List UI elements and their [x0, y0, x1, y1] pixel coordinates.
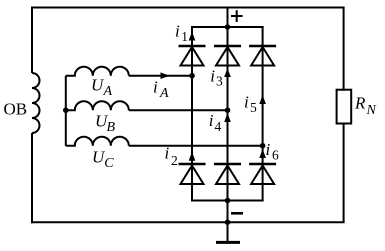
- svg-text:C: C: [104, 156, 114, 171]
- inductor UA winding: [66, 67, 129, 76]
- inductor UC winding: [66, 137, 129, 146]
- wire phase A line: [129, 75, 192, 77]
- wire phase C line: [129, 145, 263, 147]
- wire minus bus: [191, 200, 264, 202]
- wire left side upper: [31, 7, 33, 74]
- diode V2: [179, 164, 206, 184]
- arrow iA: [161, 72, 170, 79]
- svg-text:N: N: [366, 103, 377, 118]
- arrow i4: [224, 113, 231, 122]
- svg-text:A: A: [103, 84, 113, 99]
- inductor OB winding: [32, 73, 40, 133]
- svg-text:5: 5: [250, 100, 257, 115]
- wire right side lower: [343, 124, 345, 223]
- svg-text:3: 3: [216, 74, 223, 89]
- wire left side lower: [31, 133, 33, 223]
- node bottom-line junction: [225, 219, 231, 225]
- svg-text:6: 6: [272, 148, 279, 163]
- node plus-bus junction: [225, 24, 231, 30]
- svg-text:i: i: [153, 78, 158, 97]
- wire wye neutral vertical: [65, 76, 67, 146]
- diode V1: [179, 46, 206, 66]
- svg-text:R: R: [354, 94, 366, 113]
- inductor UB winding: [66, 101, 129, 110]
- svg-text:A: A: [159, 86, 169, 101]
- arrow i3: [224, 68, 231, 77]
- diode V4: [214, 164, 241, 184]
- wire left bridge column: [191, 26, 193, 202]
- svg-text:i: i: [244, 93, 249, 112]
- arrow i2: [189, 152, 196, 161]
- svg-text:i: i: [266, 140, 271, 159]
- arrow i5: [259, 95, 266, 104]
- wire plus bus: [191, 26, 264, 28]
- wire right bridge column: [262, 26, 264, 202]
- node phase C junction: [260, 143, 266, 149]
- svg-text:1: 1: [181, 29, 188, 44]
- diode V5: [249, 46, 276, 66]
- svg-text:2: 2: [171, 153, 178, 168]
- wire top line: [31, 7, 345, 9]
- plus sign: [231, 10, 243, 22]
- resistor RN: [337, 90, 352, 124]
- node wye B junction: [63, 107, 69, 113]
- wire phase B line: [129, 109, 228, 111]
- node minus-bus junction: [225, 198, 231, 204]
- ground: [216, 222, 240, 242]
- arrow i6: [259, 149, 266, 158]
- svg-text:B: B: [107, 120, 116, 135]
- minus sign: [231, 212, 243, 215]
- svg-text:ОВ: ОВ: [4, 99, 28, 118]
- svg-text:i: i: [175, 22, 180, 41]
- node phase A junction: [189, 73, 195, 79]
- diode V3: [214, 46, 241, 66]
- wire right side upper: [343, 8, 345, 91]
- arrow i1: [189, 32, 196, 41]
- wire middle bridge column: [227, 8, 229, 244]
- svg-text:i: i: [209, 111, 214, 130]
- node phase B junction: [225, 107, 231, 113]
- wire bottom line: [31, 221, 345, 223]
- svg-text:i: i: [210, 67, 215, 86]
- svg-text:i: i: [165, 144, 170, 163]
- diode V6: [249, 164, 276, 184]
- svg-text:4: 4: [215, 119, 222, 134]
